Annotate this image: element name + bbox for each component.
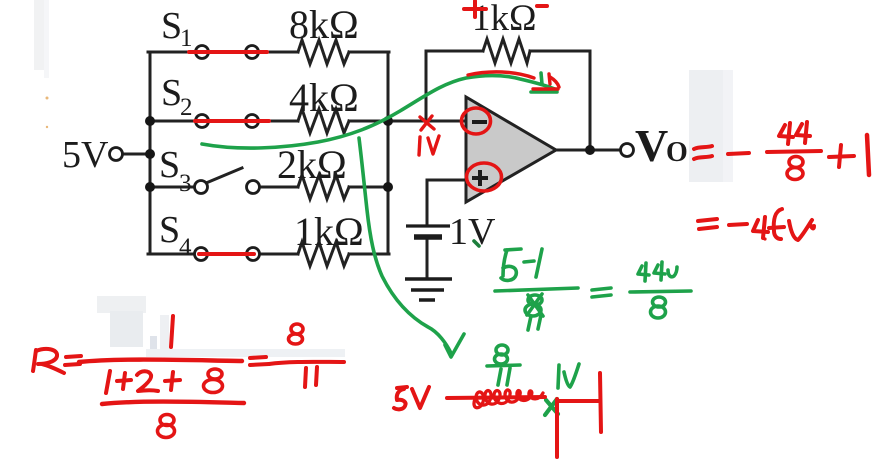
- label Vo: [635, 120, 688, 171]
- svg-text:2kΩ: 2kΩ: [277, 142, 347, 187]
- wire branch1 S1 row: [148, 51, 389, 54]
- svg-text:S: S: [159, 144, 180, 186]
- label S3: [159, 144, 192, 197]
- node S3 tap left: [145, 182, 155, 192]
- annotation red plus on feedback: [464, 1, 486, 17]
- switch S4 contacts: [195, 248, 208, 261]
- ground: [405, 279, 452, 300]
- wire 5V input stub: [123, 153, 148, 156]
- svg-text:S: S: [161, 5, 182, 47]
- annotation red closed switch S2: [195, 119, 269, 123]
- svg-text:3: 3: [179, 170, 192, 197]
- wire noninverting input: [427, 180, 464, 226]
- node S2 tap left: [145, 116, 155, 126]
- annotation red thevenin sketch: [394, 373, 601, 457]
- svg-text:O: O: [666, 137, 688, 168]
- wire feedback loop left and top: [426, 51, 590, 121]
- wire feedback loop right: [589, 51, 592, 150]
- svg-text:V: V: [635, 120, 668, 171]
- resistor 4k zigzag: [298, 109, 349, 133]
- label S2: [161, 72, 193, 121]
- annotation red arrow over green curve: [468, 72, 559, 89]
- annotation red circle around plus input: [467, 163, 502, 191]
- switch S3 lever open: [206, 168, 242, 183]
- annotation green curve to feedback: [202, 73, 557, 148]
- label 8kOhm: [289, 2, 359, 47]
- scanner gray band top-left: [34, 0, 49, 78]
- label S4: [159, 209, 192, 261]
- eraser smudges near R formula: [97, 296, 345, 357]
- junction dots: [145, 116, 595, 192]
- annotation green fraction 5-1 over 8/11: [495, 249, 578, 330]
- svg-text:1kΩ: 1kΩ: [294, 209, 364, 254]
- faint specks left margin: [46, 97, 49, 129]
- svg-text:4kΩ: 4kΩ: [289, 75, 359, 120]
- svg-text:5V: 5V: [62, 134, 109, 176]
- annotation green curve down to sketch: [359, 138, 464, 357]
- annotation green equals 44 over 8: [592, 262, 691, 318]
- label S1: [161, 5, 193, 52]
- wire battery to ground: [426, 239, 429, 278]
- annotation red x at inverting node: [420, 116, 434, 130]
- annotation red equation eq minus 4.5v: [698, 209, 814, 241]
- annotation green x node mark: [545, 399, 558, 415]
- label 5V source: [62, 134, 109, 176]
- wire branch2 S2 row: [148, 120, 389, 123]
- svg-text:4: 4: [179, 234, 192, 261]
- terminal Vo: [621, 144, 634, 157]
- switch S2 contacts: [196, 115, 209, 128]
- label 1V battery: [449, 211, 496, 253]
- wire output: [556, 149, 620, 152]
- node output junction: [585, 145, 595, 155]
- wire branch4 S4 row: [148, 253, 389, 256]
- annotation green stray tick: [474, 241, 479, 246]
- wire inverting input: [389, 120, 464, 123]
- svg-text:1V: 1V: [449, 211, 496, 253]
- annotation red 1V at inverting node: [419, 136, 439, 155]
- wire branch3 S3 row: [148, 186, 389, 189]
- battery 1V: [406, 226, 450, 237]
- annotation red equation eq 44/8 plus 1: [694, 122, 869, 180]
- svg-text:S: S: [159, 209, 180, 251]
- wire right bus: [387, 52, 390, 254]
- svg-text:8kΩ: 8kΩ: [289, 2, 359, 47]
- svg-text:2: 2: [180, 94, 193, 121]
- switch S3 contacts: [195, 181, 208, 194]
- label 4kOhm: [289, 75, 359, 120]
- label 1kOhm branch: [294, 209, 364, 254]
- wire left bus: [149, 52, 152, 254]
- annotation red closed switch S1: [189, 50, 267, 54]
- svg-text:S: S: [161, 72, 182, 114]
- node 5V tap: [145, 149, 155, 159]
- annotation red minus on feedback: [537, 4, 547, 8]
- label 1kOhm feedback: [472, 0, 537, 39]
- terminal 5V: [110, 148, 123, 161]
- annotation red circle around minus input: [462, 108, 491, 134]
- label 2kOhm: [277, 142, 347, 187]
- annotation red R formula: [33, 316, 344, 438]
- switch S1 contacts: [196, 46, 209, 59]
- node right bus S3: [383, 182, 393, 192]
- scanner gray band right: [689, 70, 733, 182]
- resistor 1k zigzag: [298, 242, 349, 266]
- annotation red closed switch S4: [199, 252, 254, 256]
- resistor 2k zigzag: [298, 175, 349, 199]
- annotation green 1v label: [558, 364, 579, 388]
- op-amp U1: [466, 97, 556, 202]
- svg-text:1: 1: [180, 25, 193, 52]
- resistor 1k feedback zigzag: [483, 39, 530, 63]
- annotation green 8/11 label in sketch: [487, 345, 520, 385]
- svg-text:1kΩ: 1kΩ: [472, 0, 537, 39]
- resistor 8k zigzag: [298, 40, 349, 64]
- node right bus S2: [383, 116, 393, 126]
